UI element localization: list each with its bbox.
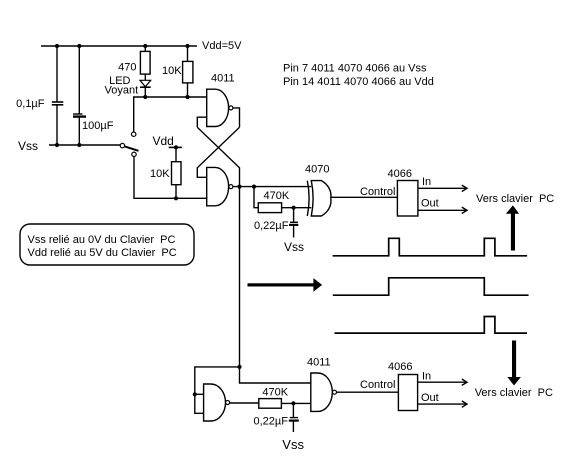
- capacitor C4 0,22µF: [289, 403, 299, 432]
- wire: U2 output (Control): [331, 196, 398, 198]
- svg-text:Vdd: Vdd: [153, 134, 174, 148]
- wire: In arrow: [418, 379, 467, 385]
- svg-text:Control: Control: [360, 186, 395, 198]
- wire: R5 to gate U5: [281, 402, 310, 404]
- note box: [20, 224, 194, 265]
- svg-text:Vss: Vss: [282, 437, 304, 452]
- node: Vss-C1: [55, 143, 59, 147]
- node: output-feedback: [237, 185, 241, 189]
- svg-text:470K: 470K: [264, 190, 290, 202]
- LED D1 Voyant: [140, 74, 151, 97]
- wire: cross diagonal (U1B out to U1A input): [197, 127, 239, 186]
- svg-text:Vdd=5V: Vdd=5V: [202, 40, 242, 52]
- resistor R2 10K (pull-up): [183, 46, 193, 97]
- node: R5-C4: [291, 401, 295, 405]
- NAND gate U1B (bottom of latch): [207, 167, 233, 205]
- node: LED-row: [143, 95, 147, 99]
- svg-text:Out: Out: [421, 198, 439, 210]
- wire: inverter upper input stub: [195, 393, 204, 395]
- svg-text:4066: 4066: [388, 168, 412, 180]
- annotation down arrow: [507, 341, 521, 386]
- svg-text:0,22µF: 0,22µF: [254, 416, 289, 428]
- wire: U5 output (Control): [337, 391, 399, 393]
- svg-text:In: In: [422, 176, 431, 188]
- node: Vss-C2: [77, 143, 81, 147]
- svg-text:10K: 10K: [162, 65, 182, 77]
- resistor R5 470K: [259, 399, 282, 409]
- resistor R4 470K: [254, 187, 311, 213]
- wire: LED node row to gate U1A input: [134, 97, 207, 132]
- node: R3 bottom: [174, 196, 178, 200]
- capacitor C1 0,1µF: [52, 46, 64, 145]
- svg-text:0,1µF: 0,1µF: [16, 98, 45, 110]
- svg-text:Vss: Vss: [284, 240, 304, 254]
- wire: U1A output to cross-coupling: [233, 108, 240, 127]
- svg-text:Vers clavier PC: Vers clavier PC: [475, 387, 553, 399]
- wire: In arrow: [418, 185, 467, 191]
- NAND gate U4 (inverter, bottom left): [204, 384, 230, 421]
- svg-text:Vss relié au 0V du Clavier PC: Vss relié au 0V du Clavier PC: [28, 234, 176, 246]
- wire: latch output down to bottom section: [240, 187, 311, 383]
- capacitor C3 0,22µF: [289, 208, 298, 238]
- svg-text:4066: 4066: [388, 361, 412, 373]
- svg-text:4070: 4070: [305, 164, 329, 176]
- node: R2-row: [185, 95, 189, 99]
- node: inverter input: [193, 392, 197, 396]
- svg-text:Pin 14 4011 4070 4066 au Vdd: Pin 14 4011 4070 4066 au Vdd: [283, 76, 434, 88]
- svg-text:4011: 4011: [307, 357, 331, 369]
- annotation up arrow: [506, 205, 519, 250]
- svg-text:100µF: 100µF: [82, 120, 114, 132]
- svg-text:Vers clavier PC: Vers clavier PC: [476, 193, 554, 205]
- capacitor C2 100µF: [73, 46, 86, 145]
- svg-text:Voyant: Voyant: [105, 85, 139, 97]
- switch IC U3 4066: [397, 181, 418, 217]
- wire: U4 output to R5: [230, 402, 259, 404]
- svg-text:4011: 4011: [211, 73, 235, 85]
- svg-text:0,22µF: 0,22µF: [254, 220, 289, 232]
- wire: latch output row: [233, 186, 311, 188]
- wire: branch to inverter inputs: [195, 367, 240, 413]
- svg-text:Control: Control: [360, 379, 395, 391]
- node: rail-C2: [77, 44, 81, 48]
- waveform 3: [335, 317, 528, 334]
- Vss rail: [49, 144, 120, 146]
- waveform 1: [333, 238, 527, 256]
- node: output-R4: [252, 185, 256, 189]
- resistor R3 10K: [172, 162, 182, 185]
- svg-text:Vss: Vss: [18, 139, 38, 153]
- node: feedback-branch: [237, 365, 241, 369]
- node: R4-C3: [292, 206, 296, 210]
- wire: cross diagonal (U1A out to U1B input): [197, 127, 239, 177]
- wire: Out arrow: [418, 401, 467, 407]
- NAND gate U5 4011 (bottom): [311, 373, 337, 411]
- svg-text:In: In: [422, 371, 431, 383]
- switch IC U6 4066: [398, 375, 417, 411]
- wire: U1B feedback stub to U1A input: [197, 117, 206, 127]
- switch S1: [120, 132, 138, 157]
- svg-text:10K: 10K: [150, 168, 170, 180]
- wire: Out arrow: [418, 207, 467, 213]
- svg-text:Pin 7 4011 4070 4066 au Vss: Pin 7 4011 4070 4066 au Vss: [283, 63, 427, 75]
- Vdd terminal (switch side): [169, 145, 182, 161]
- XOR gate U2 4070: [307, 181, 331, 216]
- svg-text:470K: 470K: [262, 387, 288, 399]
- wire: switch bottom contact to gate U1B input: [134, 157, 207, 199]
- svg-text:Vdd relié au 5V du Clavier PC: Vdd relié au 5V du Clavier PC: [28, 247, 177, 259]
- node: rail-R1: [143, 44, 147, 48]
- annotation right arrow: [248, 278, 323, 292]
- node: rail-C1: [55, 44, 59, 48]
- svg-text:Out: Out: [421, 392, 439, 404]
- Vdd rail: [41, 45, 197, 47]
- NAND gate U1A (top of latch): [207, 89, 233, 126]
- waveform 2: [333, 278, 529, 295]
- svg-text:470: 470: [118, 62, 136, 74]
- node: rail-R2: [185, 44, 189, 48]
- resistor R1 470: [140, 46, 150, 74]
